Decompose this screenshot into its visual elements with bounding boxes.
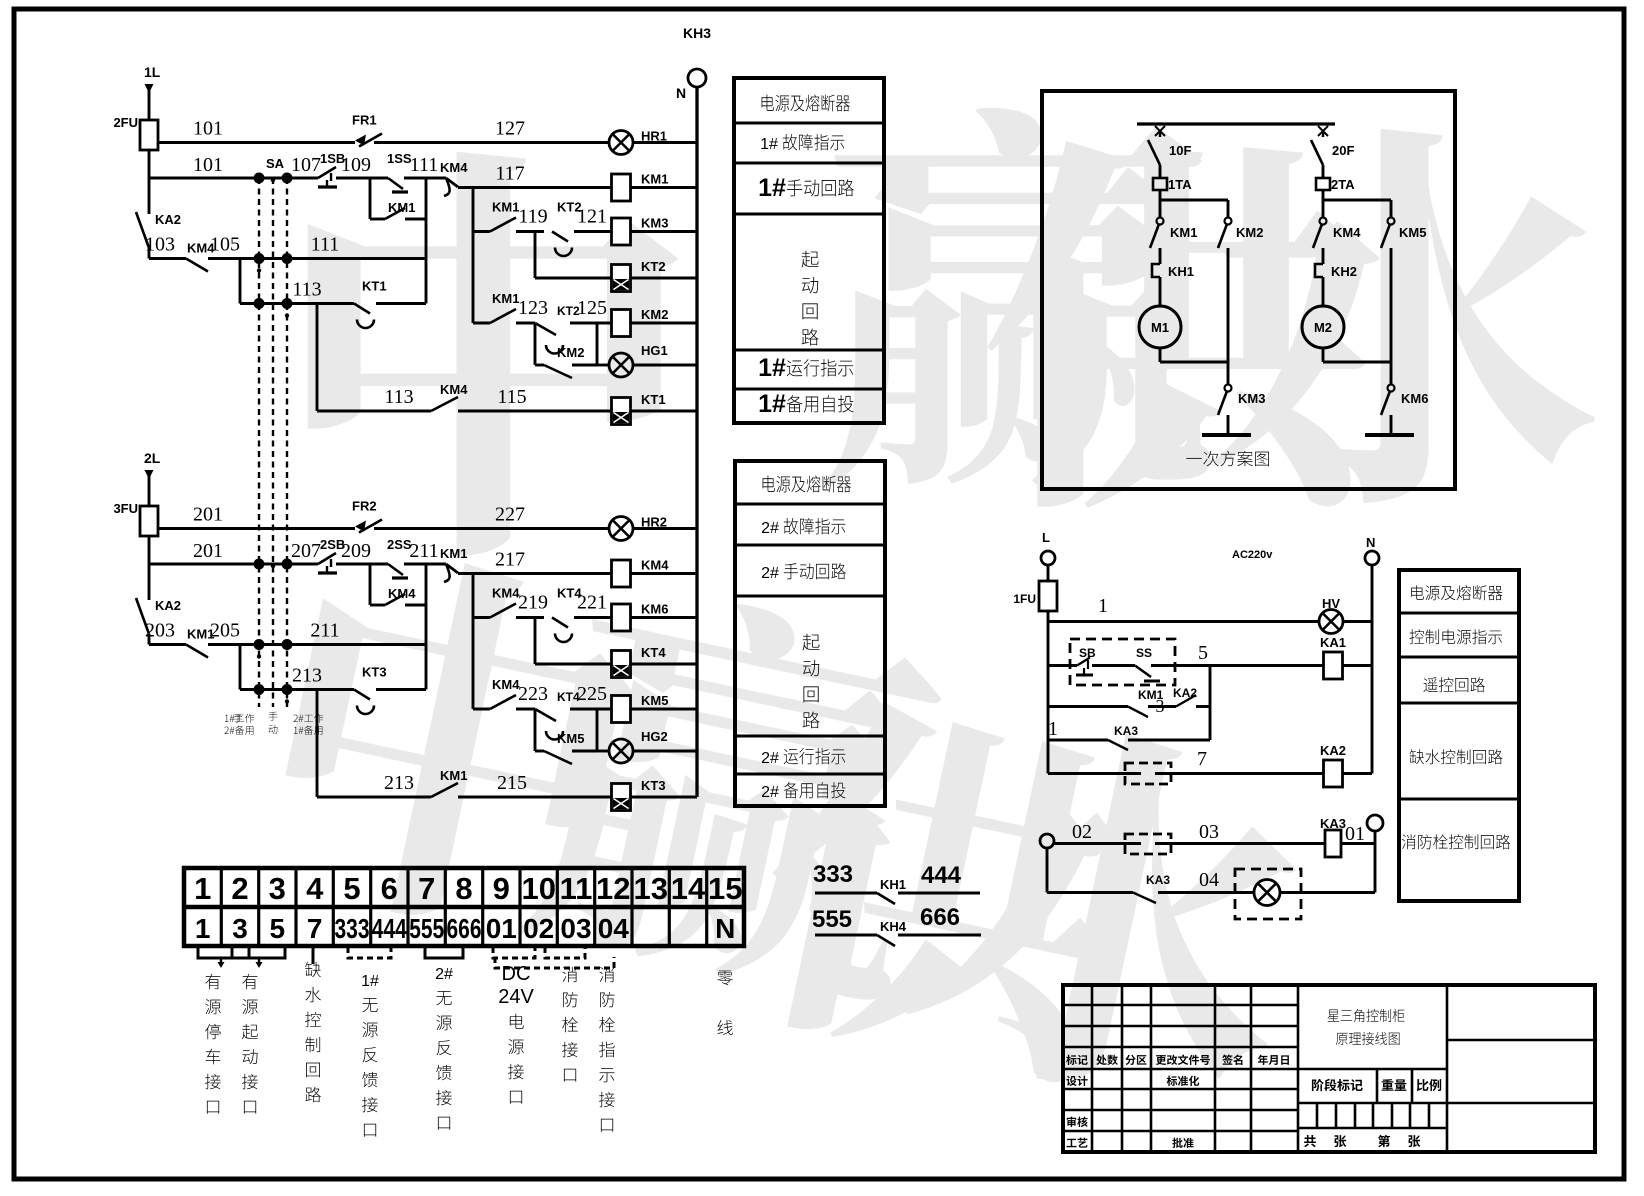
svg-text:3FU: 3FU <box>113 501 138 516</box>
svg-text:KM3: KM3 <box>1238 391 1265 406</box>
svg-text:221: 221 <box>577 592 607 614</box>
svg-text:213: 213 <box>292 665 322 687</box>
svg-text:444: 444 <box>921 862 962 889</box>
wire feed vertical <box>148 536 151 600</box>
svg-text:KA2: KA2 <box>1173 686 1197 700</box>
fire hydrant circuit terminal 02 <box>1040 834 1054 848</box>
svg-text:121: 121 <box>577 206 607 228</box>
branch split <box>1160 199 1228 202</box>
svg-text:SA: SA <box>266 156 285 171</box>
tie vertical <box>1209 666 1212 741</box>
svg-text:N: N <box>1366 535 1375 550</box>
svg-text:6: 6 <box>381 871 398 906</box>
motor bottom tie <box>1322 348 1325 362</box>
svg-text:KM1: KM1 <box>440 768 467 783</box>
motor M1 <box>1139 306 1181 348</box>
svg-text:666: 666 <box>447 913 482 944</box>
remote contact dashed <box>1125 834 1171 854</box>
svg-text:101: 101 <box>193 154 223 176</box>
svg-text:KT3: KT3 <box>641 778 666 793</box>
svg-text:219: 219 <box>518 592 548 614</box>
svg-text:225: 225 <box>577 683 607 705</box>
svg-text:02: 02 <box>1072 821 1092 843</box>
svg-text:N: N <box>715 913 735 944</box>
svg-text:KH4: KH4 <box>880 919 907 934</box>
wire 7 remote row <box>1048 772 1125 775</box>
svg-text:213: 213 <box>384 772 414 794</box>
svg-text:1SS: 1SS <box>387 151 412 166</box>
svg-text:2FU: 2FU <box>113 115 138 130</box>
svg-text:2#: 2# <box>761 750 779 767</box>
ground <box>1202 433 1251 437</box>
svg-text:FR2: FR2 <box>352 499 377 514</box>
motor bottom tie <box>1159 348 1162 362</box>
svg-text:1: 1 <box>195 913 211 944</box>
svg-text:1L: 1L <box>144 64 161 80</box>
svg-text:L: L <box>1042 530 1050 545</box>
svg-text:201: 201 <box>193 540 223 562</box>
svg-text:5: 5 <box>343 871 360 906</box>
control function table <box>1399 570 1519 901</box>
svg-text:KM1: KM1 <box>388 200 415 215</box>
left rail <box>1047 610 1050 774</box>
svg-text:8: 8 <box>455 871 472 906</box>
svg-text:KH1: KH1 <box>1168 264 1194 279</box>
bracket terminals 7-8 <box>425 947 463 958</box>
svg-text:9: 9 <box>493 871 510 906</box>
svg-text:KH1: KH1 <box>880 877 906 892</box>
svg-text:2SS: 2SS <box>387 537 412 552</box>
function table 1# (rows) <box>734 78 884 423</box>
svg-text:1#: 1# <box>361 973 379 990</box>
svg-text:KM5: KM5 <box>1399 225 1426 240</box>
svg-text:444: 444 <box>372 913 407 944</box>
svg-text:2L: 2L <box>144 450 161 466</box>
svg-text:3: 3 <box>232 913 248 944</box>
svg-text:HG2: HG2 <box>641 729 668 744</box>
svg-text:109: 109 <box>341 154 371 176</box>
label 消防栓指示接口 <box>599 967 615 1132</box>
terminal 01 <box>1367 815 1383 831</box>
junction dots on selector <box>254 559 265 570</box>
svg-text:KA3: KA3 <box>1146 873 1170 887</box>
lamp branch verticals <box>534 323 537 365</box>
function table 2# (rows) <box>735 461 885 806</box>
svg-text:5: 5 <box>270 913 286 944</box>
svg-text:24V: 24V <box>498 986 534 1008</box>
drop to standby row <box>316 690 319 798</box>
drop to standby row <box>316 304 319 412</box>
svg-text:KM5: KM5 <box>557 731 584 746</box>
svg-text:1: 1 <box>194 871 211 906</box>
svg-text:HG1: HG1 <box>641 343 668 358</box>
svg-text:KM3: KM3 <box>641 216 668 231</box>
svg-text:1FU: 1FU <box>1013 592 1036 606</box>
svg-text:KA2: KA2 <box>155 598 181 613</box>
selector position labels <box>234 714 243 723</box>
svg-text:AC220v: AC220v <box>1232 549 1273 561</box>
svg-text:7: 7 <box>1197 748 1207 770</box>
svg-text:103: 103 <box>145 234 175 256</box>
lamp branch verticals <box>534 709 537 751</box>
svg-text:KT1: KT1 <box>641 392 666 407</box>
svg-text:12: 12 <box>596 871 630 906</box>
svg-text:2#: 2# <box>761 520 779 537</box>
svg-text:KA3: KA3 <box>1114 724 1138 738</box>
svg-text:555: 555 <box>812 906 852 933</box>
svg-text:119: 119 <box>518 206 547 228</box>
svg-text:01: 01 <box>1345 823 1365 845</box>
svg-text:555: 555 <box>409 913 444 944</box>
branch to time coil KT4 <box>534 618 537 665</box>
svg-text:1: 1 <box>1098 595 1108 617</box>
svg-text:M2: M2 <box>1314 320 1332 335</box>
svg-text:04: 04 <box>598 913 630 944</box>
label 消防栓接口 <box>562 967 578 1082</box>
branch to time coil KT2 <box>534 232 537 279</box>
svg-text:123: 123 <box>518 297 548 319</box>
svg-text:205: 205 <box>210 620 240 642</box>
svg-text:2#: 2# <box>761 565 779 582</box>
svg-text:KM2: KM2 <box>557 345 584 360</box>
svg-text:333: 333 <box>335 913 370 944</box>
svg-text:KM4: KM4 <box>492 677 520 692</box>
breaker 20F <box>1318 126 1328 136</box>
svg-text:10F: 10F <box>1169 143 1191 158</box>
svg-text:211: 211 <box>409 540 438 562</box>
svg-text:127: 127 <box>495 118 525 140</box>
svg-text:KM1: KM1 <box>492 200 519 215</box>
watermark 中赢供水 upper <box>308 108 1595 555</box>
svg-text:SS: SS <box>1136 646 1152 660</box>
svg-text:227: 227 <box>495 504 525 526</box>
svg-text:111: 111 <box>311 234 340 256</box>
svg-text:KA1: KA1 <box>1320 635 1346 650</box>
svg-text:3: 3 <box>1156 696 1165 716</box>
svg-text:KT1: KT1 <box>362 279 387 294</box>
svg-text:333: 333 <box>813 861 853 888</box>
svg-text:KM4: KM4 <box>1333 225 1361 240</box>
svg-text:N: N <box>676 85 686 101</box>
svg-text:2TA: 2TA <box>1331 177 1355 192</box>
tick terminal 4 <box>312 946 315 964</box>
wire 3 row <box>1048 705 1128 708</box>
svg-text:201: 201 <box>193 504 223 526</box>
self-hold branch with contact KM4 <box>369 564 372 605</box>
svg-text:KM5: KM5 <box>641 693 668 708</box>
N rail <box>1371 565 1374 774</box>
svg-text:1TA: 1TA <box>1168 177 1192 192</box>
junction dots on selector <box>254 173 265 184</box>
svg-text:15: 15 <box>708 871 742 906</box>
svg-text:03: 03 <box>1199 821 1219 843</box>
svg-text:11: 11 <box>560 871 593 906</box>
svg-text:KM4: KM4 <box>641 558 669 573</box>
svg-text:20F: 20F <box>1332 143 1354 158</box>
svg-text:1: 1 <box>1048 718 1058 740</box>
label 有源起动接口 <box>242 974 258 1114</box>
svg-text:KH2: KH2 <box>1331 264 1357 279</box>
svg-text:1#: 1# <box>758 354 786 382</box>
bracket terminals 2-3 <box>232 947 285 958</box>
bracket terminals 1-2 <box>198 947 249 958</box>
ground <box>1365 433 1414 437</box>
svg-text:KT2: KT2 <box>641 259 666 274</box>
bracket terminals 9-12 dashed wide <box>495 957 614 968</box>
motor M2 <box>1302 306 1344 348</box>
title block labels <box>1066 1055 1088 1065</box>
svg-text:113: 113 <box>292 279 321 301</box>
svg-text:666: 666 <box>920 904 960 931</box>
svg-text:1#: 1# <box>758 390 786 418</box>
svg-text:117: 117 <box>495 163 524 185</box>
svg-text:207: 207 <box>291 540 321 562</box>
svg-text:KA2: KA2 <box>1320 743 1346 758</box>
svg-text:KH3: KH3 <box>683 25 711 41</box>
svg-text:02: 02 <box>523 913 554 944</box>
start block rail <box>472 188 475 324</box>
svg-text:DC: DC <box>502 963 531 985</box>
svg-text:KM4: KM4 <box>388 586 416 601</box>
svg-text:KM4: KM4 <box>440 382 468 397</box>
svg-text:FR1: FR1 <box>352 113 377 128</box>
breaker 10F <box>1155 126 1165 136</box>
svg-text:KM2: KM2 <box>1236 225 1263 240</box>
svg-text:2#: 2# <box>761 784 779 801</box>
wire feed vertical <box>148 150 151 214</box>
svg-text:107: 107 <box>291 154 321 176</box>
fire lamp row <box>1046 848 1049 893</box>
right tie vertical <box>425 178 428 304</box>
svg-text:101: 101 <box>193 118 223 140</box>
remote box dashed <box>1070 639 1175 685</box>
svg-text:04: 04 <box>1199 869 1219 891</box>
svg-text:KM1: KM1 <box>492 291 519 306</box>
bracket terminals 9-10 dashed <box>493 947 535 958</box>
label 有源停车接口 <box>205 974 221 1114</box>
svg-text:KT3: KT3 <box>362 665 387 680</box>
label 零线 <box>717 971 733 986</box>
svg-text:7: 7 <box>418 871 435 906</box>
watermark 中赢供水 lower <box>262 536 1325 1124</box>
svg-text:KT4: KT4 <box>641 645 666 660</box>
svg-text:217: 217 <box>495 549 525 571</box>
svg-text:111: 111 <box>410 154 439 176</box>
bracket terminals 11-12 dashed <box>545 947 585 958</box>
svg-text:KM4: KM4 <box>440 160 468 175</box>
fire lamp dashed box <box>1235 869 1301 919</box>
start block rail <box>472 574 475 710</box>
primary scheme box 一次方案图 <box>1042 91 1455 489</box>
title block <box>1063 985 1595 1152</box>
title text 星三角控制柜原理接线图 <box>1328 1009 1405 1022</box>
svg-text:113: 113 <box>384 386 413 408</box>
svg-text:2: 2 <box>231 871 248 906</box>
branch split <box>1323 199 1391 202</box>
svg-text:215: 215 <box>497 772 527 794</box>
svg-text:2#: 2# <box>435 966 453 983</box>
svg-text:KM1: KM1 <box>641 172 668 187</box>
caption 一次方案图 <box>1186 451 1269 467</box>
svg-text:M1: M1 <box>1151 320 1169 335</box>
svg-text:211: 211 <box>310 620 339 642</box>
bracket terminals 5-6 dashed <box>348 947 391 958</box>
svg-text:KA2: KA2 <box>155 212 181 227</box>
svg-text:KM1: KM1 <box>1170 225 1197 240</box>
svg-text:KM6: KM6 <box>1401 391 1428 406</box>
svg-text:03: 03 <box>560 913 591 944</box>
title fields <box>1312 1079 1363 1091</box>
svg-text:209: 209 <box>341 540 371 562</box>
svg-text:14: 14 <box>671 871 706 906</box>
svg-text:01: 01 <box>486 913 517 944</box>
svg-text:1#: 1# <box>760 136 778 153</box>
svg-text:5: 5 <box>1198 642 1208 664</box>
svg-text:10: 10 <box>521 871 555 906</box>
svg-text:4: 4 <box>306 871 324 906</box>
svg-text:KM4: KM4 <box>492 586 520 601</box>
svg-text:7: 7 <box>307 913 323 944</box>
svg-text:115: 115 <box>497 386 526 408</box>
svg-text:1#: 1# <box>758 174 786 202</box>
svg-text:3: 3 <box>269 871 286 906</box>
svg-text:105: 105 <box>210 234 240 256</box>
svg-text:KM2: KM2 <box>641 307 668 322</box>
svg-text:13: 13 <box>633 871 667 906</box>
self-hold branch with contact KM1 <box>369 178 372 219</box>
selector drop to row 113 <box>239 259 242 304</box>
svg-text:KM6: KM6 <box>641 602 668 617</box>
selector drop to row 113 <box>239 645 242 690</box>
svg-text:223: 223 <box>518 683 548 705</box>
svg-text:203: 203 <box>145 620 175 642</box>
terminal strip <box>184 868 744 946</box>
right tie vertical <box>425 564 428 690</box>
svg-text:KM1: KM1 <box>440 546 467 561</box>
svg-text:125: 125 <box>577 297 607 319</box>
label 缺水控制回路 <box>305 962 321 1102</box>
